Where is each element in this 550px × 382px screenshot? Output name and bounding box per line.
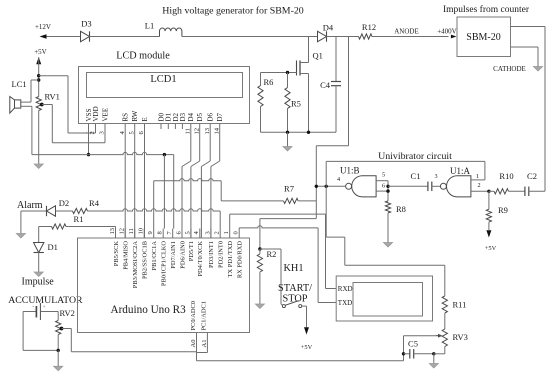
svg-text:D4: D4 [187, 112, 195, 121]
svg-text:PD2/INT0: PD2/INT0 [218, 241, 225, 268]
svg-text:C4: C4 [320, 80, 331, 90]
svg-text:Arduino Uno R3: Arduino Uno R3 [111, 304, 187, 316]
svg-text:12: 12 [119, 228, 126, 235]
svg-text:E: E [141, 117, 149, 121]
svg-text:5: 5 [382, 172, 385, 179]
svg-text:START/: START/ [278, 283, 312, 294]
svg-text:+: + [42, 304, 45, 310]
svg-text:KH1: KH1 [284, 263, 304, 274]
svg-text:9: 9 [147, 231, 154, 234]
svg-text:PD4/T0/XCK: PD4/T0/XCK [197, 241, 204, 277]
svg-text:Univibrator circuit: Univibrator circuit [378, 151, 452, 162]
svg-text:RV1: RV1 [45, 92, 60, 102]
svg-text:PD7/AIN1: PD7/AIN1 [170, 241, 177, 269]
svg-text:-: - [32, 304, 34, 310]
svg-text:R9: R9 [498, 205, 508, 215]
svg-text:Q1: Q1 [313, 51, 323, 61]
svg-text:PB3/MOSI/OC2A: PB3/MOSI/OC2A [132, 241, 139, 289]
svg-text:C5: C5 [408, 338, 418, 348]
svg-text:U1:B: U1:B [340, 166, 360, 176]
svg-text:STOP: STOP [283, 294, 308, 305]
svg-text:R5: R5 [291, 99, 301, 109]
svg-text:SBM-20: SBM-20 [466, 32, 500, 43]
svg-text:RX PD0/RXD: RX PD0/RXD [237, 241, 244, 278]
svg-text:ACCUMULATOR: ACCUMULATOR [8, 295, 83, 306]
svg-text:D6: D6 [207, 112, 215, 121]
svg-text:+5V: +5V [485, 245, 497, 252]
svg-text:A1: A1 [201, 340, 208, 348]
svg-text:C2: C2 [527, 171, 537, 181]
svg-text:0: 0 [233, 231, 240, 234]
svg-text:LC1: LC1 [12, 79, 27, 89]
svg-text:PD3/INT1: PD3/INT1 [208, 241, 215, 268]
svg-text:C1: C1 [411, 171, 421, 181]
svg-text:Impulse: Impulse [22, 277, 55, 288]
svg-text:D5: D5 [196, 112, 204, 121]
svg-text:R8: R8 [396, 204, 406, 214]
svg-text:R7: R7 [284, 184, 294, 194]
svg-text:VEE: VEE [101, 108, 109, 122]
svg-text:TXD: TXD [338, 299, 352, 307]
svg-text:+12V: +12V [35, 23, 51, 31]
svg-text:D1: D1 [48, 242, 58, 252]
svg-text:High voltage generator for SBM: High voltage generator for SBM-20 [162, 6, 304, 17]
svg-text:13: 13 [109, 228, 116, 235]
svg-text:PB0/ICP1/CLKO: PB0/ICP1/CLKO [161, 241, 168, 286]
svg-text:R11: R11 [453, 300, 467, 310]
svg-text:R2: R2 [267, 249, 277, 259]
svg-text:RV3: RV3 [453, 332, 468, 342]
svg-text:PD5/T1: PD5/T1 [188, 241, 195, 261]
svg-text:RW: RW [131, 110, 139, 121]
svg-text:PC0/ADC0: PC0/ADC0 [190, 301, 197, 330]
svg-text:L1: L1 [145, 21, 154, 31]
svg-text:D4: D4 [323, 22, 334, 32]
svg-text:RV2: RV2 [60, 308, 75, 318]
svg-text:3: 3 [204, 231, 211, 234]
svg-text:4: 4 [337, 176, 340, 183]
svg-text:PB4/MISO: PB4/MISO [123, 241, 130, 270]
svg-text:ANODE: ANODE [394, 28, 419, 36]
svg-text:D2: D2 [59, 198, 69, 208]
svg-text:R12: R12 [362, 22, 376, 32]
svg-text:R4: R4 [89, 198, 100, 208]
svg-text:+5V: +5V [301, 344, 313, 351]
svg-text:+400V: +400V [437, 27, 457, 35]
svg-text:1: 1 [223, 231, 230, 234]
svg-text:2: 2 [477, 182, 480, 189]
svg-text:R6: R6 [264, 77, 274, 87]
svg-text:RXD: RXD [338, 285, 353, 293]
svg-text:LCD module: LCD module [116, 51, 170, 62]
svg-text:PD6/AIN0: PD6/AIN0 [179, 241, 186, 269]
svg-text:+5V: +5V [34, 48, 47, 56]
svg-text:A0: A0 [190, 340, 197, 348]
svg-text:PC1/ADC1: PC1/ADC1 [201, 301, 208, 330]
svg-text:R1: R1 [74, 214, 84, 224]
svg-text:LCD1: LCD1 [150, 74, 176, 85]
svg-text:D3: D3 [179, 112, 187, 121]
svg-text:VDD: VDD [92, 106, 100, 121]
svg-text:2: 2 [214, 231, 221, 234]
svg-text:TX PD1/TXD: TX PD1/TXD [227, 241, 234, 278]
svg-text:3: 3 [434, 173, 437, 180]
svg-text:8: 8 [157, 231, 164, 234]
svg-text:D3: D3 [81, 19, 91, 29]
svg-text:10: 10 [138, 228, 145, 235]
svg-text:U1:A: U1:A [450, 166, 471, 176]
svg-text:PB2/SS/OC1B: PB2/SS/OC1B [142, 241, 149, 279]
svg-text:PB1/OC1A: PB1/OC1A [151, 241, 158, 271]
svg-text:RS: RS [122, 113, 130, 122]
svg-text:11: 11 [128, 228, 135, 234]
svg-text:CATHODE: CATHODE [493, 65, 526, 73]
svg-text:PB5/SCK: PB5/SCK [113, 241, 120, 267]
svg-text:Impulses from counter: Impulses from counter [443, 4, 530, 15]
svg-text:D7: D7 [216, 112, 224, 121]
svg-text:6: 6 [382, 183, 385, 190]
svg-text:Alarm: Alarm [17, 200, 43, 211]
svg-text:1: 1 [476, 173, 479, 180]
svg-text:R10: R10 [499, 171, 513, 181]
svg-text:5: 5 [184, 231, 191, 234]
